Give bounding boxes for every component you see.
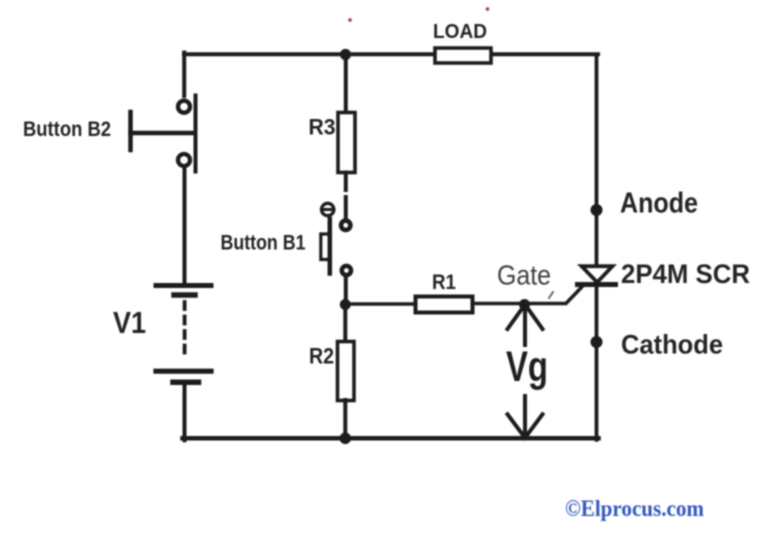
wire top horizontal left [184, 52, 435, 56]
resistor R2 [338, 342, 355, 401]
label R2 [309, 344, 334, 369]
node junction top of R3 branch [340, 49, 351, 60]
wire battery to bottom [183, 383, 187, 441]
node Cathode dot [591, 336, 603, 348]
svg-text:R1: R1 [432, 271, 456, 294]
wire R3 to button B1 [344, 173, 348, 191]
label 2P4M SCR [621, 259, 750, 289]
svg-text:Button B2: Button B2 [23, 118, 111, 141]
Vg arrow up [508, 299, 543, 345]
wire top to R3 [344, 54, 348, 113]
svg-text:2P4M SCR: 2P4M SCR [621, 259, 750, 289]
label Elprocus watermark [565, 496, 704, 521]
wire top horizontal right [490, 52, 598, 56]
label Button B1 [221, 232, 306, 255]
svg-text:Button B1: Button B1 [221, 232, 306, 255]
svg-text:Gate: Gate [497, 260, 551, 291]
battery V1 [156, 286, 211, 383]
wire R2 to bottom [343, 400, 347, 440]
label R3 [309, 115, 336, 140]
SCR U1 2P4M [578, 266, 616, 284]
wire bottom horizontal [183, 436, 599, 441]
pushbutton B1 [321, 203, 351, 275]
node junction bottom of R2 [340, 433, 352, 445]
pushbutton B2 [131, 96, 196, 172]
label Gate [497, 260, 551, 291]
svg-text:Cathode: Cathode [621, 330, 723, 360]
wire right vertical [595, 55, 599, 440]
label Vg [506, 343, 548, 391]
svg-text:Vg: Vg [506, 343, 548, 391]
wire left vertical to battery [183, 169, 187, 285]
wire stub above B1 contact [344, 197, 348, 219]
red speck 1 [348, 18, 352, 22]
svg-text:R2: R2 [309, 344, 334, 369]
wire gate node to R1 [345, 302, 416, 306]
wire left vertical to button B2 [182, 53, 186, 97]
label R1 [432, 271, 456, 294]
label Anode [620, 188, 698, 220]
stray tick mark [549, 292, 553, 298]
label V1 [113, 305, 146, 340]
svg-text:Anode: Anode [620, 188, 698, 220]
resistor LOAD [435, 48, 491, 63]
red speck 2 [486, 7, 490, 11]
label Button B2 [23, 118, 111, 141]
wire B1 to gate node [344, 278, 348, 306]
label LOAD [433, 21, 487, 43]
svg-text:©Elprocus.com: ©Elprocus.com [565, 496, 704, 521]
resistor R1 [416, 297, 473, 313]
Vg arrow down [508, 396, 543, 438]
label Cathode [621, 330, 723, 360]
wire R1 to SCR gate [473, 287, 582, 303]
svg-text:R3: R3 [309, 115, 336, 140]
node Anode dot [591, 204, 603, 216]
svg-text:V1: V1 [113, 305, 146, 340]
resistor R3 [338, 113, 355, 173]
wire gate node to R2 [343, 305, 347, 343]
node junction gate branch [340, 299, 351, 310]
svg-text:LOAD: LOAD [433, 21, 487, 43]
